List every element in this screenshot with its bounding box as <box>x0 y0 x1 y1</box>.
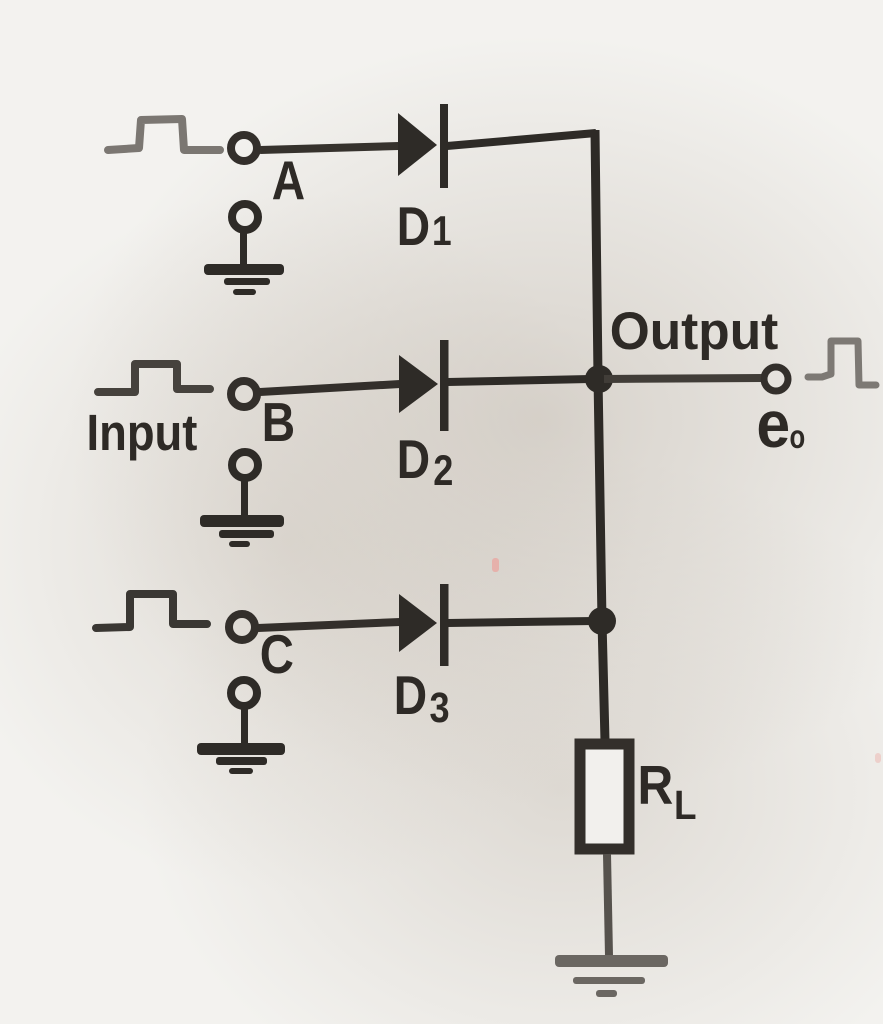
wire resistor to ground <box>607 854 609 956</box>
svg-text:D: D <box>397 428 430 490</box>
svg-text:1: 1 <box>432 208 452 255</box>
diode D3 <box>399 584 449 666</box>
label D3 <box>394 664 450 732</box>
input A pulse waveform <box>108 119 220 150</box>
wire input B to diode D2 <box>260 384 400 392</box>
resistor RL <box>580 744 629 849</box>
label D1 <box>397 195 452 257</box>
input terminal B <box>231 381 257 407</box>
wire input C to diode D3 <box>258 622 400 628</box>
svg-text:Input: Input <box>87 405 198 462</box>
svg-text:3: 3 <box>430 684 450 732</box>
diode D1 <box>398 104 448 188</box>
svg-text:D: D <box>394 664 427 726</box>
wire node to output terminal <box>604 378 762 379</box>
output pulse waveform <box>808 341 876 385</box>
svg-text:e: e <box>756 389 790 462</box>
label RL <box>638 756 697 829</box>
wire diode D3 to junction <box>448 621 594 623</box>
svg-text:o: o <box>790 419 806 456</box>
ground at output <box>555 955 668 997</box>
ground at input C <box>197 680 285 774</box>
svg-text:R: R <box>638 756 674 817</box>
ground at input B <box>200 452 284 547</box>
input terminal A <box>231 135 257 161</box>
junction dot row C <box>588 607 616 635</box>
svg-text:B: B <box>262 391 295 453</box>
svg-text:D: D <box>397 195 430 257</box>
label D2 <box>397 428 453 495</box>
input B pulse waveform <box>98 364 210 392</box>
wire diode D2 to output node <box>448 379 590 382</box>
svg-text:L: L <box>674 783 697 828</box>
svg-text:Output: Output <box>610 302 778 361</box>
input terminal C <box>229 614 255 640</box>
input C pulse waveform <box>96 594 207 628</box>
wire input A to diode D1 <box>260 146 399 150</box>
wire diode D1 to output bus corner <box>447 133 596 146</box>
ground at input A <box>204 204 284 295</box>
svg-text:A: A <box>272 149 305 211</box>
output bus vertical wire <box>595 130 605 741</box>
output terminal eo <box>764 367 788 391</box>
svg-text:2: 2 <box>433 447 453 495</box>
svg-text:C: C <box>260 624 294 685</box>
output node junction dot <box>585 365 613 393</box>
diode D2 <box>399 340 449 431</box>
label eo <box>756 389 805 462</box>
